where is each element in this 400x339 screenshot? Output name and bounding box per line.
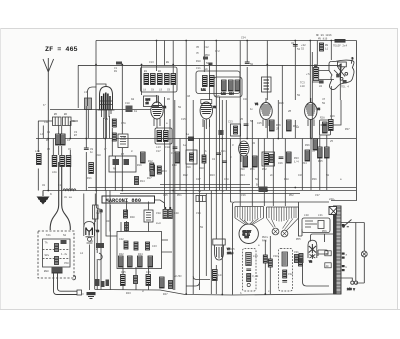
wire v x278 — [277, 100, 279, 138]
wire v x240 — [239, 41, 241, 207]
wire v x99 x103 lower — [97, 210, 101, 290]
svg-text:2M: 2M — [276, 128, 280, 131]
svg-text:L27: L27 — [218, 274, 223, 277]
wire v x86 — [85, 106, 87, 191]
scan page bottom edge — [0, 309, 400, 311]
svg-text:V1: V1 — [105, 118, 109, 121]
battery inner box — [43, 239, 71, 267]
svg-text:ZF = 465: ZF = 465 — [45, 46, 78, 54]
T1 labels — [143, 70, 171, 92]
output tube V7 — [213, 239, 234, 260]
resistor R18 — [172, 152, 180, 167]
cap on mid bus — [186, 133, 194, 141]
battery plug — [77, 290, 85, 296]
svg-text:L4: L4 — [40, 133, 44, 136]
column small parts — [246, 269, 258, 287]
svg-text:R42: R42 — [119, 253, 124, 256]
svg-text:R40: R40 — [130, 216, 135, 219]
volume pot under chassis bus — [96, 191, 102, 260]
wire v V1 pins — [104, 116, 110, 139]
svg-text:L10: L10 — [300, 85, 305, 88]
battery compartment dashed box — [38, 231, 74, 278]
resistor R20 — [199, 155, 206, 170]
wire v x295 — [294, 41, 296, 139]
svg-text:345: 345 — [245, 236, 250, 239]
wire v x219 — [219, 97, 221, 190]
coil L16 above V4 — [262, 77, 272, 92]
wire v x96 — [95, 41, 97, 191]
svg-text:B90: B90 — [44, 270, 49, 273]
svg-text:C32: C32 — [288, 273, 293, 276]
left column band components — [38, 65, 122, 191]
svg-text:R17: R17 — [147, 177, 152, 180]
svg-text:C10: C10 — [125, 102, 130, 105]
svg-text:R38: R38 — [284, 178, 289, 181]
svg-text:L8: L8 — [143, 89, 147, 92]
svg-text:C37: C37 — [315, 194, 320, 197]
svg-text:C27: C27 — [196, 178, 201, 181]
svg-text:R44: R44 — [138, 253, 143, 256]
svg-text:L31: L31 — [318, 214, 323, 217]
svg-text:B6: B6 — [64, 113, 68, 116]
resistor R35 — [318, 147, 330, 163]
svg-text:R6: R6 — [167, 98, 171, 101]
antenna — [43, 58, 54, 191]
wire v x70 — [69, 121, 71, 191]
mains plug terminals — [341, 223, 358, 292]
svg-text:C38: C38 — [156, 212, 161, 215]
wire v x186 — [185, 41, 187, 295]
svg-text:TA1: TA1 — [46, 234, 51, 237]
svg-text:R2: R2 — [252, 142, 256, 145]
box R7 — [118, 134, 128, 148]
svg-text:47: 47 — [322, 98, 326, 101]
resistor R34 — [302, 150, 310, 165]
svg-text:7F: 7F — [196, 52, 200, 55]
svg-text:R31: R31 — [250, 168, 255, 171]
svg-text:C45: C45 — [121, 271, 126, 274]
wire v x317 — [316, 41, 318, 66]
svg-text:B5: B5 — [54, 113, 58, 116]
wire v x112 — [112, 128, 115, 191]
svg-text:90v: 90v — [45, 254, 50, 257]
cap C19 — [171, 147, 177, 155]
svg-text:R11: R11 — [87, 177, 92, 180]
resistor R17 — [147, 165, 155, 180]
battery cell caps — [45, 240, 68, 265]
resistor R47 bottom center — [163, 281, 173, 297]
wire v x258 — [257, 139, 259, 188]
cap C34 on top bus — [241, 37, 254, 67]
wire v x180 — [179, 139, 181, 191]
svg-text:1B: 1B — [131, 98, 135, 101]
svg-text:V4: V4 — [255, 103, 259, 106]
second bus wire — [78, 64, 340, 66]
svg-text:L11: L11 — [201, 89, 206, 92]
svg-text:L6A: L6A — [52, 171, 57, 174]
svg-text:3Z: 3Z — [187, 95, 191, 98]
wire v x156 — [156, 41, 158, 104]
svg-text:C9: C9 — [167, 89, 171, 92]
resistor R21 output grid — [306, 65, 319, 81]
wire loop bottom center — [186, 276, 216, 294]
wire v x199 — [199, 139, 201, 291]
svg-text:L30: L30 — [304, 214, 309, 217]
svg-text:S2: S2 — [63, 234, 67, 237]
resistor R59 — [325, 263, 331, 268]
svg-text:1n: 1n — [90, 151, 94, 154]
svg-text:C2: C2 — [47, 131, 51, 134]
B+ connector box — [256, 184, 268, 193]
wire v x302 — [301, 139, 303, 191]
resistor R58 — [325, 251, 331, 256]
small box fuse on wire y82 — [319, 80, 324, 88]
wire v x94 x110 lower — [95, 205, 111, 290]
svg-text:R56: R56 — [322, 230, 327, 233]
speaker and output transformer assembly — [329, 57, 354, 89]
wavewinder comb right — [267, 207, 299, 231]
svg-text:50: 50 — [297, 94, 301, 97]
box L13 — [155, 128, 172, 144]
svg-text:C17: C17 — [156, 150, 161, 153]
svg-text:C50: C50 — [64, 262, 69, 265]
svg-text:1/2: 1/2 — [215, 49, 220, 53]
svg-text:C': C' — [104, 147, 107, 151]
svg-text:L33: L33 — [253, 255, 258, 258]
svg-text:C6: C6 — [68, 148, 72, 151]
svg-text:40: 40 — [326, 253, 330, 256]
frame aerial wishbone — [50, 162, 70, 230]
svg-text:AC/DC: AC/DC — [174, 274, 182, 278]
wire v x312 — [311, 52, 313, 138]
svg-text:240~: 240~ — [329, 198, 336, 201]
svg-text:C31: C31 — [294, 251, 299, 254]
battery cable wires — [54, 274, 78, 295]
svg-text:R39: R39 — [312, 178, 317, 181]
svg-text:C25: C25 — [257, 122, 262, 125]
svg-text:R24: R24 — [240, 174, 245, 177]
svg-text:TEL 4: TEL 4 — [341, 86, 349, 89]
mains switch — [341, 220, 364, 229]
resistor L27 under V7 — [213, 270, 224, 281]
tone box — [109, 156, 136, 172]
wire v x105 — [104, 110, 106, 191]
svg-text:TA: TA — [45, 242, 49, 245]
svg-text:50: 50 — [326, 174, 330, 177]
wire v x264 — [263, 139, 265, 207]
tube V2 IF amp — [151, 97, 167, 128]
svg-text:B2: B2 — [158, 70, 162, 73]
svg-text:B+: B+ — [256, 184, 260, 187]
wire v x285 — [284, 139, 286, 207]
svg-text:R15: R15 — [215, 95, 220, 98]
resistor R49 bottom center — [160, 277, 165, 288]
resistor R3 — [46, 134, 71, 145]
svg-text:2n: 2n — [205, 68, 209, 71]
wire v x282 — [281, 65, 283, 138]
svg-text:1a: 1a — [183, 144, 187, 147]
box R19 — [186, 150, 197, 164]
svg-text:50: 50 — [250, 63, 254, 66]
svg-text:R43: R43 — [126, 292, 131, 295]
mid bus wire — [36, 138, 356, 140]
voltage selector box with X — [329, 207, 337, 215]
resistor R11 — [87, 163, 93, 181]
tube V3 detector — [200, 100, 216, 130]
svg-text:V8: V8 — [309, 261, 313, 264]
svg-text:8+8: 8+8 — [156, 222, 161, 225]
caps between columns — [263, 236, 302, 294]
svg-text:C42: C42 — [119, 238, 124, 241]
svg-text:240 v: 240 v — [347, 288, 355, 291]
caps row inside box — [119, 238, 157, 250]
wire v x58 x61 upper — [59, 126, 62, 156]
tube V5 output — [305, 98, 321, 128]
wire h row1 — [38, 120, 78, 122]
wire v x141 — [141, 65, 143, 96]
svg-text:V2: V2 — [163, 106, 167, 109]
svg-text:R20: R20 — [199, 167, 204, 170]
contact cluster bottom left — [95, 279, 109, 287]
svg-text:R52: R52 — [289, 194, 294, 197]
wire v x216 — [215, 41, 217, 279]
svg-text:50: 50 — [178, 106, 182, 109]
coil L4 — [35, 150, 41, 165]
svg-text:R1: R1 — [114, 70, 118, 73]
svg-text:2n: 2n — [270, 174, 274, 177]
resistor R12 — [148, 160, 154, 171]
chassis bus fourth line — [120, 193, 300, 195]
top center label cluster — [196, 46, 220, 71]
osc grid box — [144, 96, 159, 107]
svg-text:C39: C39 — [196, 212, 201, 215]
svg-text:C36: C36 — [241, 194, 246, 197]
dashed column left — [243, 249, 257, 292]
svg-text:R23: R23 — [210, 174, 215, 177]
svg-text:R29: R29 — [330, 115, 335, 118]
caps C21 C22 — [216, 150, 227, 163]
svg-text:L4B: L4B — [44, 121, 49, 124]
svg-text:C34: C34 — [241, 37, 246, 40]
bottom bus wire — [95, 290, 333, 296]
top right text block — [301, 34, 347, 51]
wire v x164 — [164, 41, 166, 208]
svg-text:MV 816: MV 816 — [318, 38, 328, 41]
right frame wire — [331, 41, 357, 201]
svg-text:C13: C13 — [149, 61, 154, 64]
svg-text:50: 50 — [250, 120, 254, 123]
svg-text:R36: R36 — [305, 144, 310, 147]
wire h y190 to 200 link — [155, 200, 165, 207]
box C23 — [231, 124, 241, 136]
svg-text:L1: L1 — [58, 184, 62, 187]
wire v x252 — [251, 120, 253, 206]
wire h y100 left — [50, 109, 151, 111]
svg-text:52: 52 — [168, 138, 172, 141]
svg-text:C21: C21 — [221, 150, 226, 153]
svg-text:L9: L9 — [159, 89, 163, 92]
wire v x170 — [169, 119, 171, 207]
wire v x230 — [230, 139, 232, 203]
wire v x78 — [77, 65, 79, 108]
svg-text:L2: L2 — [80, 252, 84, 255]
wire v x319 x326 — [320, 135, 327, 190]
svg-text:C23: C23 — [228, 121, 233, 124]
tone box parts — [113, 159, 130, 171]
svg-text:BL: BL — [73, 120, 77, 123]
labels row1 left — [44, 113, 76, 124]
wire v x222 — [221, 100, 223, 294]
svg-text:R14: R14 — [140, 180, 145, 183]
svg-text:C15: C15 — [181, 118, 186, 121]
svg-text:35: 35 — [196, 46, 200, 49]
box R28 — [320, 120, 331, 135]
svg-text:47: 47 — [312, 150, 316, 153]
svg-text:3,4Ω: 3,4Ω — [252, 275, 259, 278]
cap C9 — [84, 148, 94, 154]
svg-text:11: 11 — [325, 48, 329, 51]
resistor row inside box — [119, 253, 153, 267]
IF transformer T2 can — [196, 71, 242, 97]
rectifier tube V8 — [308, 240, 317, 263]
svg-text:C29: C29 — [298, 174, 303, 177]
trimmer labels — [262, 236, 269, 242]
wire v x209 — [209, 65, 211, 191]
svg-text:C5: C5 — [47, 148, 51, 151]
chassis bus second line — [88, 187, 356, 189]
wire v x122 — [121, 65, 123, 191]
svg-text:C43: C43 — [152, 245, 157, 248]
svg-text:R28: R28 — [320, 117, 325, 120]
small box on y109 wire — [125, 102, 133, 112]
svg-text:L12: L12 — [221, 93, 226, 96]
wire v x331 — [330, 41, 332, 121]
coil can left of V1 — [85, 98, 92, 110]
svg-text:B8: B8 — [166, 61, 170, 64]
wire v x267 — [266, 41, 268, 139]
svg-text:2M: 2M — [288, 110, 292, 113]
resistor R31 — [250, 156, 257, 171]
svg-text:Vol: Vol — [96, 211, 101, 215]
cap C22b — [219, 130, 224, 135]
electrolytic caps pair C40 C41 — [163, 207, 179, 219]
svg-text:V5: V5 — [317, 108, 321, 111]
svg-text:Vo sw: Vo sw — [64, 196, 72, 199]
cap C7B — [112, 133, 126, 141]
box R41 above — [144, 210, 153, 222]
cap C16 — [135, 177, 146, 185]
svg-text:C14: C14 — [229, 93, 234, 96]
svg-text:R19: R19 — [186, 166, 191, 169]
svg-text:32: 32 — [291, 42, 295, 45]
svg-text:R45: R45 — [230, 248, 235, 251]
svg-text:R18: R18 — [172, 164, 177, 167]
svg-text:R47: R47 — [163, 293, 168, 296]
scattered component value labels — [40, 61, 350, 295]
svg-text:50: 50 — [198, 190, 202, 193]
resistor R36b — [313, 139, 318, 150]
small choke left of V8 — [299, 254, 304, 264]
svg-text:50: 50 — [200, 226, 204, 229]
wire v x96b — [95, 110, 97, 191]
resistor R29 right — [321, 115, 336, 131]
svg-text:TELEF 2x4: TELEF 2x4 — [333, 45, 347, 48]
stepped wire top — [299, 202, 334, 286]
rectifier tube small left — [84, 222, 100, 291]
svg-text:25: 25 — [330, 140, 334, 143]
wire v x341 mid — [331, 100, 341, 125]
transformer terminal dots — [342, 224, 348, 271]
svg-text:1M: 1M — [146, 102, 150, 105]
svg-text:1/4: 1/4 — [294, 160, 299, 164]
svg-text:R46: R46 — [262, 239, 267, 242]
svg-text:L13: L13 — [156, 146, 161, 149]
resistor R40 above box — [124, 210, 136, 231]
resistor R30 — [240, 156, 248, 171]
power sub box — [302, 218, 330, 233]
svg-text:40: 40 — [326, 265, 330, 268]
caps C5 C6 C6a — [52, 156, 71, 175]
svg-text:R12: R12 — [148, 160, 153, 163]
svg-text:L3: L3 — [84, 91, 88, 94]
svg-text:MARCONI 880: MARCONI 880 — [106, 198, 142, 204]
wire v x206 x211 lower — [206, 191, 211, 295]
svg-text:C11: C11 — [196, 67, 201, 70]
svg-text:52: 52 — [301, 48, 305, 51]
switch contacts bottom left — [90, 240, 104, 248]
speaker labels — [300, 82, 349, 89]
wire v x38 — [37, 121, 39, 191]
IF transformer T1 can — [141, 67, 178, 92]
svg-text:R22: R22 — [183, 174, 188, 177]
svg-text:B1: B1 — [144, 70, 148, 73]
tube V1 frequency changer — [88, 84, 115, 119]
wires in AF box — [106, 191, 172, 291]
coil cans L5 L6 — [53, 117, 62, 126]
resistor R9 top right — [320, 43, 329, 51]
svg-text:C4: C4 — [67, 139, 71, 142]
svg-text:R51: R51 — [177, 194, 182, 197]
svg-text:C35: C35 — [163, 194, 168, 197]
svg-text:R32: R32 — [262, 168, 267, 171]
svg-text:R35: R35 — [318, 160, 323, 163]
cap C24 — [244, 120, 254, 126]
svg-text:R37: R37 — [345, 128, 350, 131]
wire v x247 — [246, 41, 248, 139]
svg-text:R34: R34 — [302, 162, 307, 165]
svg-text:C26: C26 — [278, 162, 283, 165]
svg-text:R48: R48 — [106, 220, 111, 223]
svg-text:R10: R10 — [96, 154, 101, 157]
cap C32 — [291, 42, 301, 51]
svg-text:R25: R25 — [279, 102, 284, 105]
svg-text:V3: V3 — [213, 106, 217, 109]
svg-text:C30: C30 — [273, 255, 278, 258]
svg-text:18: 18 — [134, 110, 138, 113]
scan page left edge — [0, 28, 2, 309]
top small component on second bus — [114, 62, 122, 74]
svg-text:R3: R3 — [46, 139, 50, 142]
chassis bus third line — [160, 184, 250, 186]
svg-text:1n: 1n — [250, 108, 254, 111]
svg-text:C28: C28 — [224, 178, 229, 181]
svg-text:C7A: C7A — [121, 122, 126, 125]
wavewinder comb left — [235, 207, 264, 225]
dashed column right — [279, 249, 293, 292]
wire v x340 — [339, 65, 341, 101]
svg-text:1a: 1a — [186, 133, 190, 136]
column2 small parts — [282, 270, 293, 282]
